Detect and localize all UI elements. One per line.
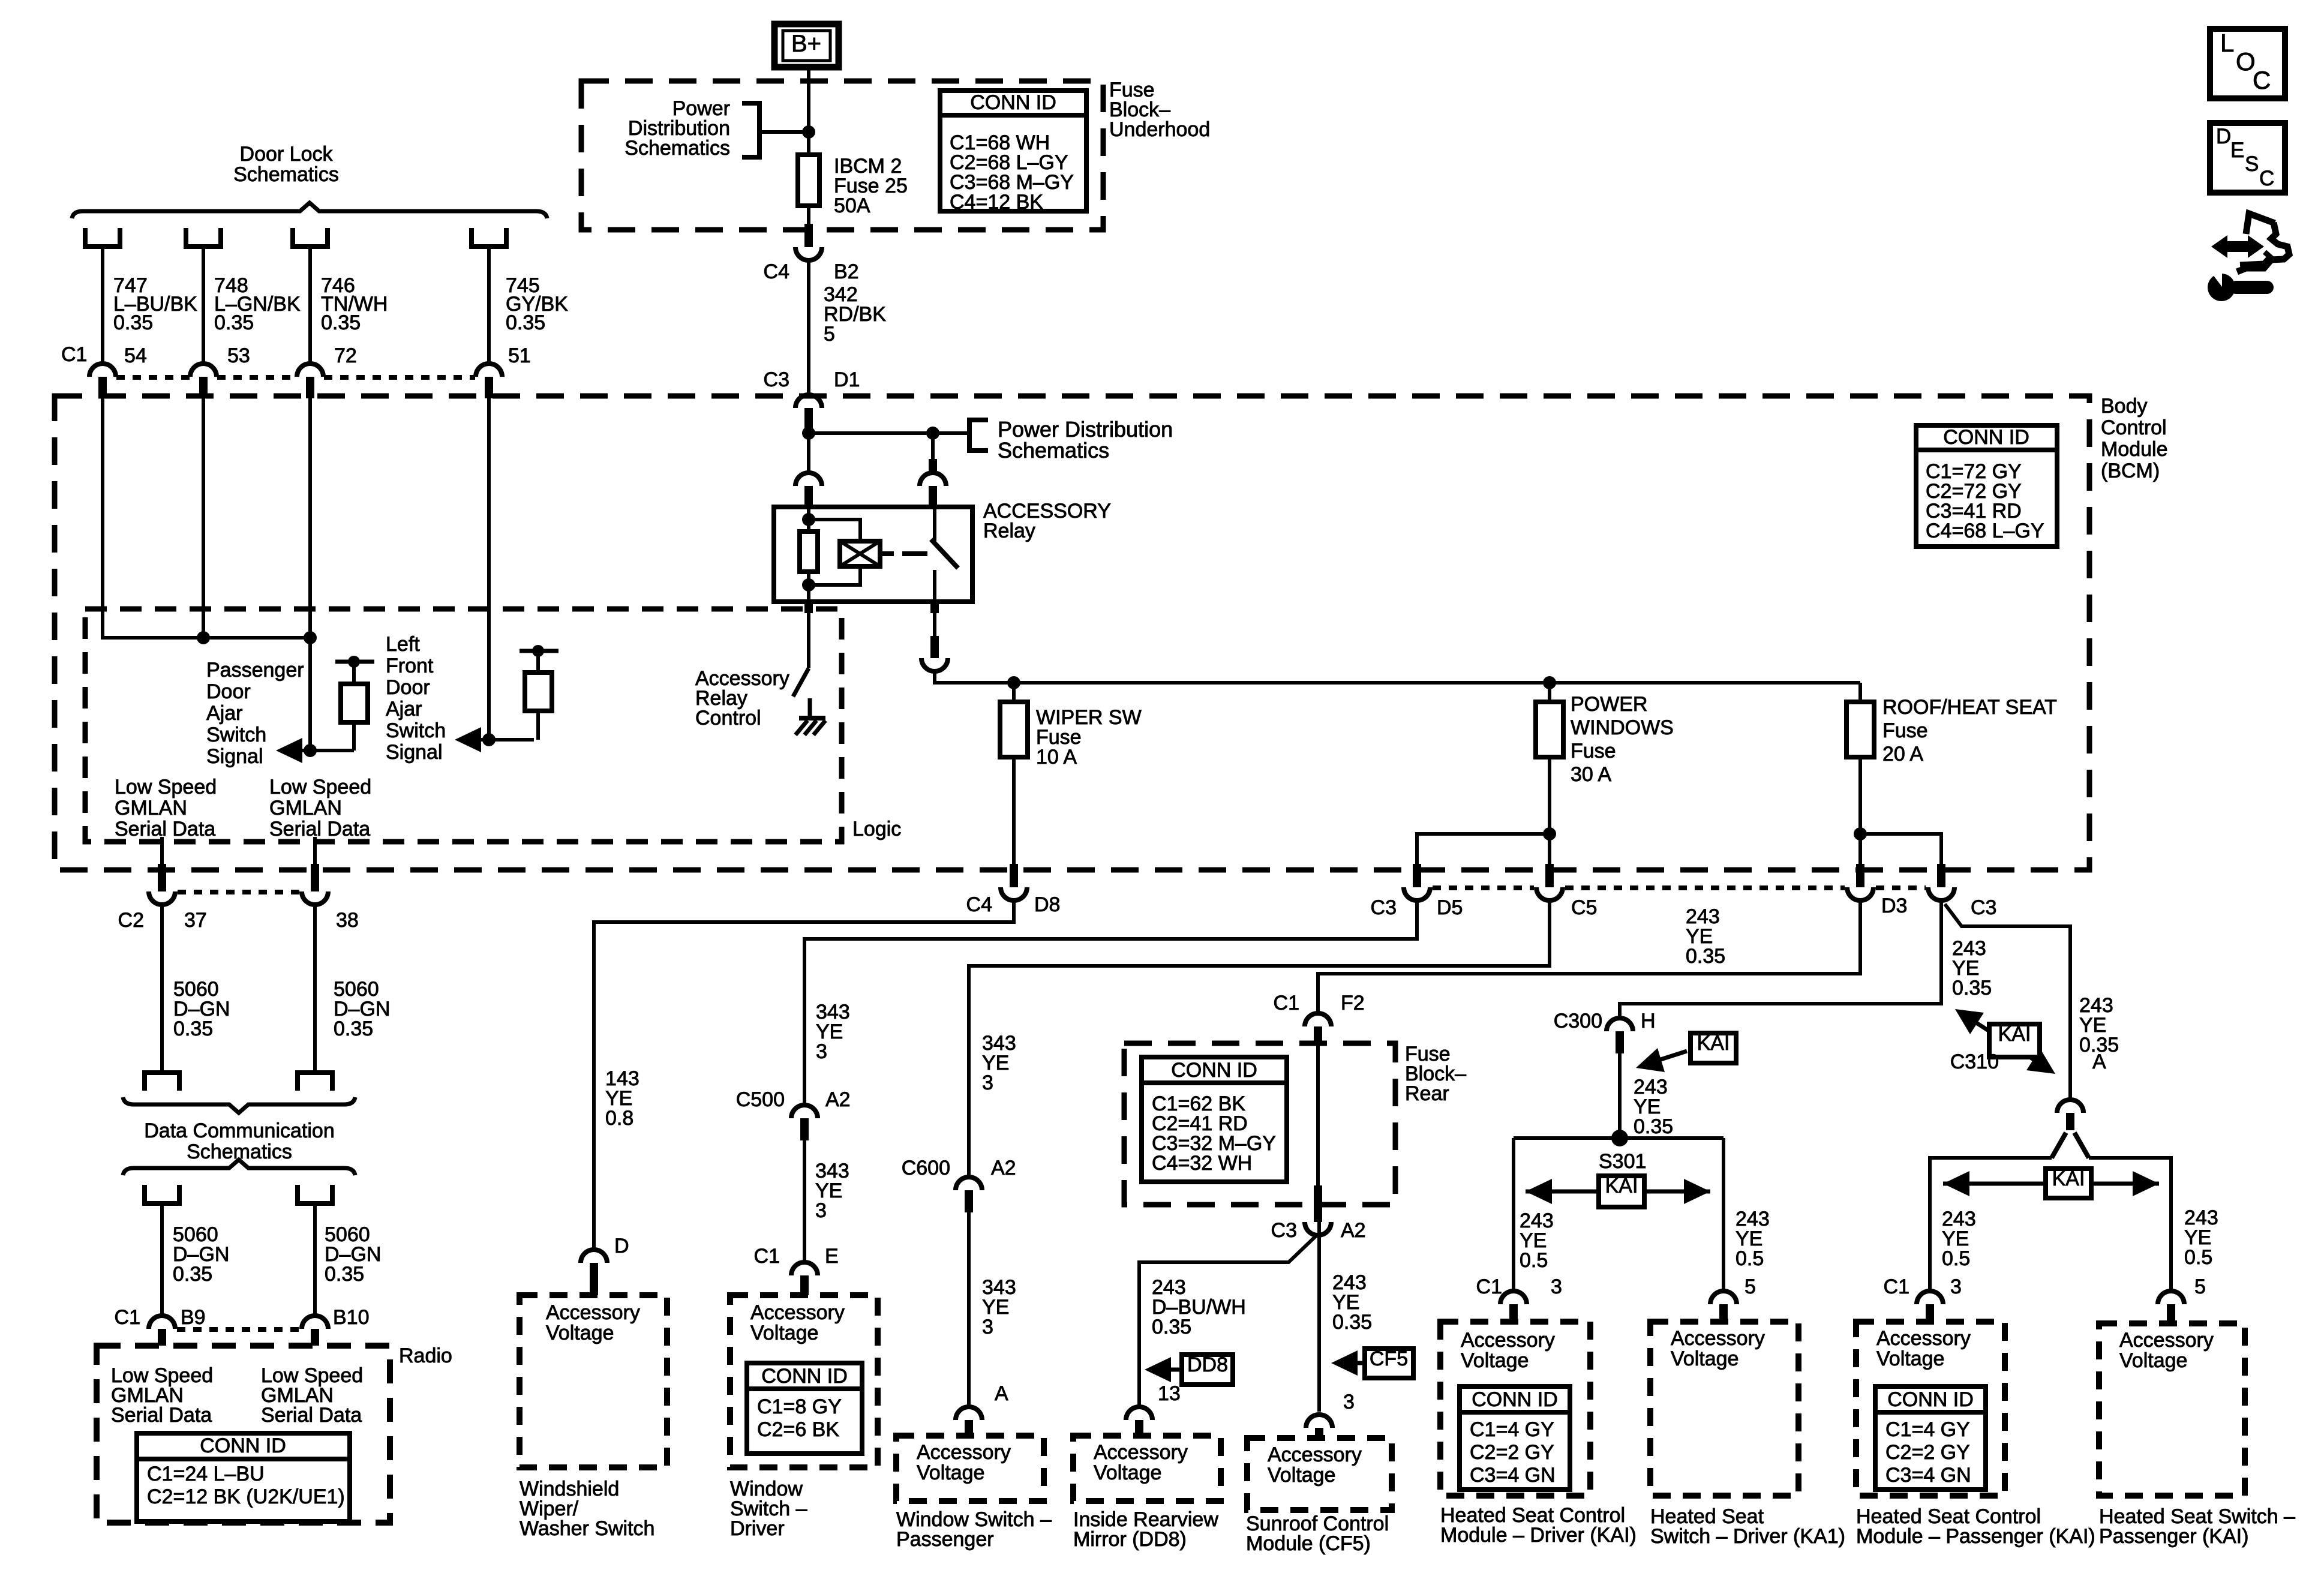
label window switch driver	[730, 1478, 807, 1540]
svg-text:C2=2 GY: C2=2 GY	[1885, 1441, 1970, 1464]
svg-text:37: 37	[184, 909, 207, 932]
svg-text:ROOF/HEAT SEAT: ROOF/HEAT SEAT	[1882, 696, 2057, 719]
svg-text:CONN ID: CONN ID	[1887, 1388, 1974, 1411]
svg-text:5: 5	[2194, 1275, 2206, 1298]
wire 51 down	[487, 398, 491, 740]
svg-text:C3: C3	[1271, 1219, 1297, 1242]
connector stub 37 end	[145, 1073, 179, 1091]
svg-text:Door: Door	[206, 680, 251, 703]
svg-text:Body: Body	[2101, 395, 2148, 418]
junction node 53	[197, 631, 210, 644]
pin C3 (roof feed)	[1928, 864, 1996, 919]
window switch driver box	[730, 1295, 878, 1467]
relay coil output stub	[804, 602, 813, 613]
conn id table window switch driver	[747, 1363, 862, 1454]
ajar bus	[203, 636, 310, 640]
pin C5	[1536, 864, 1597, 919]
svg-text:A2: A2	[1341, 1219, 1366, 1242]
accessory relay control label	[695, 667, 789, 730]
svg-text:Voltage: Voltage	[1671, 1347, 1739, 1370]
svg-text:Door Lock: Door Lock	[240, 143, 334, 166]
wire relay output	[933, 613, 936, 636]
wire C3 to C300	[1620, 900, 1941, 1018]
heated seat switch passenger box	[2099, 1323, 2245, 1496]
svg-text:0.35: 0.35	[1686, 945, 1725, 968]
svg-text:Module (CF5): Module (CF5)	[1246, 1532, 1371, 1555]
relay coil branch top	[809, 520, 860, 541]
wire C310 to heated seat control passenger	[1930, 1158, 2052, 1291]
svg-text:3: 3	[1343, 1391, 1355, 1413]
fuse ROOF/HEAT SEAT 20A	[1846, 683, 2057, 834]
svg-text:3: 3	[815, 1199, 827, 1222]
svg-text:D: D	[614, 1235, 629, 1257]
svg-text:GMLAN: GMLAN	[115, 797, 187, 819]
fuse block underhood dashed box	[581, 81, 1103, 230]
junction node D5 branch	[1543, 827, 1556, 840]
svg-text:E: E	[2230, 139, 2244, 162]
svg-text:Radio: Radio	[399, 1344, 452, 1367]
label heated seat switch passenger	[2099, 1505, 2295, 1548]
svg-text:0.8: 0.8	[605, 1107, 633, 1130]
svg-text:0.35: 0.35	[214, 311, 254, 334]
svg-text:A: A	[995, 1382, 1008, 1405]
junction node on B+ feed	[802, 125, 815, 139]
svg-text:C4=12 BK: C4=12 BK	[950, 191, 1043, 214]
svg-text:C600: C600	[902, 1157, 950, 1179]
connector stub wire 745	[472, 228, 506, 363]
svg-text:C4: C4	[966, 893, 992, 916]
svg-text:Voltage: Voltage	[1461, 1349, 1529, 1372]
pin A window switch passenger	[956, 1382, 1008, 1436]
fuse WIPER SW 10A	[1000, 683, 1142, 864]
svg-text:Left: Left	[386, 633, 420, 656]
pin C4/B2 fuse block underhood	[764, 224, 859, 283]
wire roof fuse to pin D3	[1858, 834, 1862, 864]
svg-text:20 A: 20 A	[1882, 743, 1923, 766]
label passenger door ajar switch signal	[206, 659, 304, 768]
wire 54 down	[103, 398, 203, 638]
arrow passenger ajar signal	[276, 738, 354, 763]
svg-text:0.5: 0.5	[1942, 1247, 1970, 1270]
power distribution schematics callout (BCM)	[809, 417, 1173, 463]
svg-text:B10: B10	[333, 1306, 370, 1329]
svg-text:C1=8 GY: C1=8 GY	[757, 1395, 842, 1418]
pin 5 heated seat switch driver	[1710, 1275, 1756, 1322]
svg-text:Washer Switch: Washer Switch	[520, 1517, 654, 1540]
wire C500 to window switch driver	[804, 1140, 849, 1262]
label wire 5060 to radio (B10)	[325, 1223, 381, 1286]
accessory voltage bus	[935, 671, 1860, 683]
conn id table fuse block underhood	[940, 91, 1086, 214]
radio dashed box	[97, 1346, 390, 1523]
pin B10 radio	[302, 1306, 370, 1346]
pin 54	[89, 344, 147, 398]
label fuse block rear	[1405, 1043, 1466, 1105]
label Body Control Module BCM	[2101, 395, 2168, 482]
label inside rearview mirror	[1073, 1508, 1218, 1551]
svg-text:0.35: 0.35	[1332, 1311, 1372, 1334]
svg-text:54: 54	[124, 344, 147, 367]
wire S301 to heated seat switch driver	[1724, 1138, 1770, 1291]
pin C3/D5	[1371, 864, 1463, 919]
svg-text:C2=2 GY: C2=2 GY	[1470, 1441, 1554, 1464]
relay switch	[931, 508, 958, 601]
svg-text:Underhood: Underhood	[1109, 118, 1210, 141]
svg-text:5: 5	[1744, 1275, 1756, 1298]
junction node wiper fuse	[1007, 676, 1020, 689]
brace door lock schematics	[72, 203, 547, 218]
pin 5 heated seat switch passenger	[2158, 1275, 2206, 1323]
label heated seat control module driver	[1440, 1504, 1637, 1547]
fuse POWER WINDOWS 30A	[1536, 683, 1674, 834]
svg-text:KAI: KAI	[1605, 1175, 1638, 1197]
battery feed B+ box	[774, 24, 839, 67]
svg-text:0.35: 0.35	[173, 1017, 213, 1040]
svg-text:L: L	[2220, 29, 2234, 57]
wire 143 YE 0.8	[594, 900, 1014, 1250]
svg-text:0.35: 0.35	[321, 311, 361, 334]
label wire 5060 to radio (B9)	[173, 1223, 229, 1286]
pin C4/D8	[966, 864, 1061, 916]
conn id table heated seat control passenger	[1875, 1386, 1986, 1490]
pin C1/B9 radio	[115, 1306, 206, 1346]
label wire 748 L-GN/BK 0.35	[214, 274, 301, 334]
label window switch passenger	[896, 1508, 1052, 1551]
svg-text:53: 53	[227, 344, 250, 367]
label Fuse Block-Underhood	[1109, 79, 1210, 141]
wire C5 to C600	[969, 900, 1550, 1177]
svg-text:Relay: Relay	[983, 520, 1035, 542]
svg-text:Serial Data: Serial Data	[261, 1404, 362, 1427]
junction node passenger ajar	[304, 744, 317, 757]
svg-text:Accessory: Accessory	[1876, 1327, 1971, 1350]
wire branch to pin C3	[1860, 834, 1941, 864]
junction node left front ajar	[482, 733, 496, 746]
relay coil branch bottom	[809, 566, 860, 585]
svg-text:Passenger: Passenger	[896, 1528, 994, 1551]
callout DD8	[1145, 1353, 1233, 1385]
svg-text:Rear: Rear	[1405, 1082, 1449, 1105]
connector stub wire 746	[293, 228, 328, 363]
pin 51	[476, 344, 531, 398]
svg-text:D1: D1	[834, 368, 860, 391]
wire 243 D-BU/WH to mirror	[1139, 1235, 1317, 1407]
splice Y at C310	[2052, 1133, 2089, 1158]
svg-text:D: D	[2216, 125, 2231, 148]
svg-text:C5: C5	[1571, 896, 1597, 919]
svg-text:Switch: Switch	[386, 719, 446, 742]
relay switch output stub	[930, 602, 939, 613]
ground symbol	[795, 718, 825, 735]
svg-text:F2: F2	[1341, 992, 1365, 1014]
pin D wiper switch	[581, 1235, 629, 1295]
svg-text:D3: D3	[1881, 894, 1907, 917]
label wire 745 GY/BK 0.35	[506, 274, 568, 334]
body control module dashed box	[55, 396, 2089, 870]
relay resistor	[800, 532, 818, 572]
svg-text:Front: Front	[386, 655, 434, 677]
wire C600 to window switch passenger	[969, 1212, 1016, 1407]
svg-text:B9: B9	[181, 1306, 206, 1329]
logic inner dashed box	[85, 609, 842, 842]
label windshield wiper washer switch	[520, 1478, 654, 1540]
svg-text:C4=68 L–GY: C4=68 L–GY	[1926, 520, 2044, 542]
svg-text:C1: C1	[61, 343, 87, 366]
svg-text:C300: C300	[1554, 1010, 1602, 1032]
wire D3 to F2	[1318, 900, 1860, 1013]
svg-text:0.35: 0.35	[173, 1263, 212, 1286]
svg-text:3: 3	[982, 1071, 993, 1094]
arrow left front ajar signal	[455, 727, 534, 752]
inline connector C500/A2	[736, 1088, 851, 1140]
svg-text:Fuse: Fuse	[1571, 740, 1616, 763]
svg-text:C1=24 L–BU: C1=24 L–BU	[147, 1463, 265, 1485]
svg-text:Door: Door	[386, 676, 430, 699]
svg-text:C1: C1	[1884, 1275, 1909, 1298]
svg-text:C2=12 BK (U2K/UE1): C2=12 BK (U2K/UE1)	[147, 1485, 345, 1508]
svg-text:0.35: 0.35	[325, 1263, 364, 1286]
heated seat switch driver box	[1650, 1322, 1798, 1496]
svg-text:CONN ID: CONN ID	[200, 1434, 286, 1457]
svg-text:C1: C1	[115, 1306, 140, 1329]
svg-text:B+: B+	[791, 31, 821, 57]
svg-text:Accessory: Accessory	[1461, 1329, 1555, 1352]
label gmlan serial data radio (B10)	[261, 1364, 363, 1427]
conn id table radio	[137, 1433, 350, 1521]
connector service icon	[2206, 214, 2289, 301]
svg-text:Accessory: Accessory	[1094, 1441, 1188, 1464]
svg-text:C500: C500	[736, 1088, 785, 1111]
pin C1/3 heated seat control passenger	[1884, 1275, 1962, 1322]
svg-text:C4: C4	[764, 260, 789, 283]
junction node relay switch feed	[926, 427, 939, 440]
S301 bus	[1514, 1136, 1724, 1140]
svg-text:H: H	[1641, 1010, 1656, 1032]
fuse IBCM 2 Fuse 25 50A	[798, 132, 908, 224]
wire C3 to C310	[1945, 904, 2070, 1100]
svg-text:C3: C3	[1371, 896, 1397, 919]
wire 72 down	[308, 398, 312, 751]
svg-text:Voltage: Voltage	[1268, 1464, 1335, 1487]
inline connector relay output	[921, 636, 948, 671]
svg-text:Accessory: Accessory	[750, 1301, 845, 1324]
svg-text:Module: Module	[2101, 438, 2168, 461]
label wire 747 L-BU/BK 0.35	[113, 274, 197, 334]
svg-text:E: E	[825, 1245, 839, 1268]
fuse block rear dashed box	[1124, 1043, 1395, 1205]
label C1 connector	[61, 343, 87, 366]
pin 38	[302, 864, 359, 932]
svg-text:Schematics: Schematics	[998, 438, 1109, 463]
pin D3	[1847, 864, 1907, 917]
svg-text:C: C	[2253, 66, 2271, 94]
svg-text:CONN ID: CONN ID	[1171, 1059, 1257, 1082]
svg-text:A2: A2	[991, 1157, 1016, 1179]
svg-text:13: 13	[1158, 1382, 1181, 1405]
junction node power windows fuse	[1543, 676, 1556, 689]
wire through fuse block rear	[1316, 1043, 1320, 1185]
svg-text:Ajar: Ajar	[386, 698, 422, 721]
svg-text:Logic: Logic	[852, 818, 901, 840]
svg-text:0.35: 0.35	[506, 311, 545, 334]
callout KAI at C300	[1636, 1032, 1736, 1072]
svg-text:CONN ID: CONN ID	[1472, 1388, 1558, 1411]
svg-text:Voltage: Voltage	[750, 1322, 818, 1344]
ground contact stub	[808, 698, 812, 718]
sunroof control module box	[1247, 1438, 1392, 1510]
svg-text:S301: S301	[1599, 1150, 1646, 1173]
conn id table BCM	[1916, 425, 2057, 547]
svg-text:Mirror (DD8): Mirror (DD8)	[1073, 1528, 1187, 1551]
svg-text:72: 72	[334, 344, 357, 367]
pin C300/H	[1554, 1010, 1656, 1053]
brace data communication (lower)	[123, 1160, 355, 1175]
svg-text:Voltage: Voltage	[1094, 1461, 1161, 1484]
svg-text:KAI: KAI	[1697, 1032, 1730, 1055]
heated seat control module driver box	[1440, 1322, 1590, 1496]
DESC reference box	[2210, 123, 2285, 193]
svg-text:C2: C2	[118, 909, 144, 932]
wire 5060 (37)	[162, 905, 230, 1070]
pin 3 sunroof	[1306, 1391, 1355, 1438]
svg-text:Voltage: Voltage	[546, 1322, 614, 1344]
pull-up resistor left front ajar	[520, 645, 559, 740]
svg-text:Ajar: Ajar	[206, 702, 242, 725]
svg-text:Voltage: Voltage	[2119, 1349, 2187, 1372]
accessory relay control switch lever	[793, 668, 809, 697]
svg-text:KAI: KAI	[2052, 1167, 2085, 1190]
svg-text:C4=32 WH: C4=32 WH	[1152, 1152, 1252, 1175]
inline connector C600/A2	[902, 1157, 1016, 1212]
svg-text:A: A	[2092, 1050, 2106, 1073]
wire S301 to heated seat control driver	[1514, 1138, 1554, 1291]
svg-text:DD8: DD8	[1187, 1353, 1228, 1376]
svg-text:Serial Data: Serial Data	[269, 818, 370, 840]
svg-text:30 A: 30 A	[1571, 763, 1611, 786]
wire branch to pin D5	[1417, 834, 1550, 864]
pin C310/A	[1950, 1050, 2106, 1130]
pin 72	[297, 344, 357, 398]
svg-text:C3: C3	[764, 368, 789, 391]
wire 243 YE to sunroof	[1319, 1221, 1372, 1412]
windshield wiper washer switch box	[520, 1295, 667, 1467]
svg-text:Data Communication: Data Communication	[144, 1119, 334, 1142]
svg-text:D5: D5	[1437, 896, 1463, 919]
pin C2/37	[118, 864, 207, 932]
connector stub wire 748	[186, 228, 221, 363]
label wire 746 TN/WH 0.35	[321, 274, 388, 334]
svg-text:0.35: 0.35	[1634, 1115, 1673, 1138]
svg-text:0.35: 0.35	[1952, 977, 1992, 999]
pin C3/A2 fuse block rear	[1271, 1185, 1366, 1242]
svg-text:0.35: 0.35	[1152, 1316, 1191, 1338]
svg-text:C: C	[2259, 167, 2274, 190]
svg-text:Signal: Signal	[206, 745, 263, 768]
wire gmlan 37	[160, 837, 164, 864]
svg-text:CF5: CF5	[1370, 1347, 1408, 1370]
pin C1/E window switch driver	[754, 1245, 839, 1295]
svg-text:Serial Data: Serial Data	[111, 1404, 212, 1427]
svg-text:Voltage: Voltage	[1876, 1347, 1944, 1370]
conn id table heated seat control driver	[1460, 1386, 1570, 1490]
label sunroof control module	[1246, 1512, 1389, 1555]
svg-text:Serial Data: Serial Data	[115, 818, 215, 840]
inline connector coil feed	[795, 473, 822, 508]
svg-text:0.35: 0.35	[334, 1017, 373, 1040]
label heated seat switch driver	[1650, 1505, 1845, 1548]
callout CF5	[1331, 1347, 1413, 1378]
conn id table fuse block rear	[1142, 1057, 1287, 1182]
label gmlan serial data radio (B9)	[111, 1364, 213, 1427]
window switch passenger box	[896, 1436, 1044, 1501]
accessory relay control wire	[807, 613, 810, 668]
connector stub 38 end	[298, 1073, 332, 1091]
svg-text:Control: Control	[2101, 416, 2167, 439]
label Data Communication Schematics	[144, 1119, 334, 1163]
svg-text:C3: C3	[1971, 896, 1996, 919]
svg-text:Accessory: Accessory	[917, 1441, 1011, 1464]
svg-text:0.5: 0.5	[1520, 1249, 1548, 1272]
inside rearview mirror box	[1073, 1436, 1221, 1501]
svg-text:CONN ID: CONN ID	[970, 91, 1056, 114]
svg-text:B2: B2	[834, 260, 859, 283]
svg-text:GMLAN: GMLAN	[269, 797, 342, 819]
svg-text:Control: Control	[695, 707, 761, 730]
relay coil terminal	[880, 551, 894, 556]
callout KAI at S301	[1526, 1175, 1710, 1207]
wire D1 to relay feed	[807, 430, 810, 472]
dotted connector line radio	[177, 1327, 300, 1332]
svg-text:C3=4 GN: C3=4 GN	[1470, 1464, 1556, 1487]
label Door Lock Schematics	[233, 143, 339, 186]
svg-text:Module – Driver (KAI): Module – Driver (KAI)	[1440, 1524, 1637, 1547]
wire power windows to pin C5	[1548, 834, 1551, 864]
pin 53	[190, 344, 250, 398]
svg-text:Low Speed: Low Speed	[269, 776, 371, 798]
svg-text:Accessory: Accessory	[1671, 1327, 1765, 1350]
svg-text:0.35: 0.35	[113, 311, 153, 334]
label low speed gmlan serial data (38)	[269, 776, 371, 840]
connector stub radio B10	[298, 1185, 332, 1316]
dotted connector line bottom row	[1433, 885, 1926, 890]
junction node roof fuse branch	[1854, 827, 1867, 840]
svg-text:C310: C310	[1950, 1050, 1999, 1073]
pull-up resistor passenger ajar	[335, 656, 374, 751]
power distribution schematics callout (top)	[624, 97, 809, 160]
svg-text:Schematics: Schematics	[233, 163, 339, 186]
svg-text:38: 38	[336, 909, 359, 932]
junction node resistor bottom	[802, 578, 815, 592]
svg-text:C1: C1	[754, 1245, 780, 1268]
svg-text:C1=4 GY: C1=4 GY	[1470, 1418, 1554, 1441]
svg-text:Signal: Signal	[386, 741, 443, 764]
label Radio	[399, 1344, 452, 1367]
pin C1/3 heated seat control driver	[1476, 1275, 1562, 1322]
wire to relay switch	[931, 433, 935, 459]
svg-text:(BCM): (BCM)	[2101, 460, 2160, 482]
svg-text:Accessory: Accessory	[2119, 1329, 2214, 1352]
wire D5 to C500	[804, 900, 1417, 1105]
svg-text:WINDOWS: WINDOWS	[1571, 716, 1674, 739]
label 243 YE 0.35 at C310	[2079, 994, 2119, 1056]
svg-text:Voltage: Voltage	[917, 1461, 984, 1484]
connector stub radio B9	[145, 1185, 179, 1316]
label heated seat control module passenger	[1856, 1505, 2095, 1548]
svg-text:0.5: 0.5	[2184, 1246, 2212, 1269]
label Logic	[852, 818, 901, 840]
svg-text:Schematics: Schematics	[624, 137, 730, 160]
junction node 72	[304, 631, 317, 644]
